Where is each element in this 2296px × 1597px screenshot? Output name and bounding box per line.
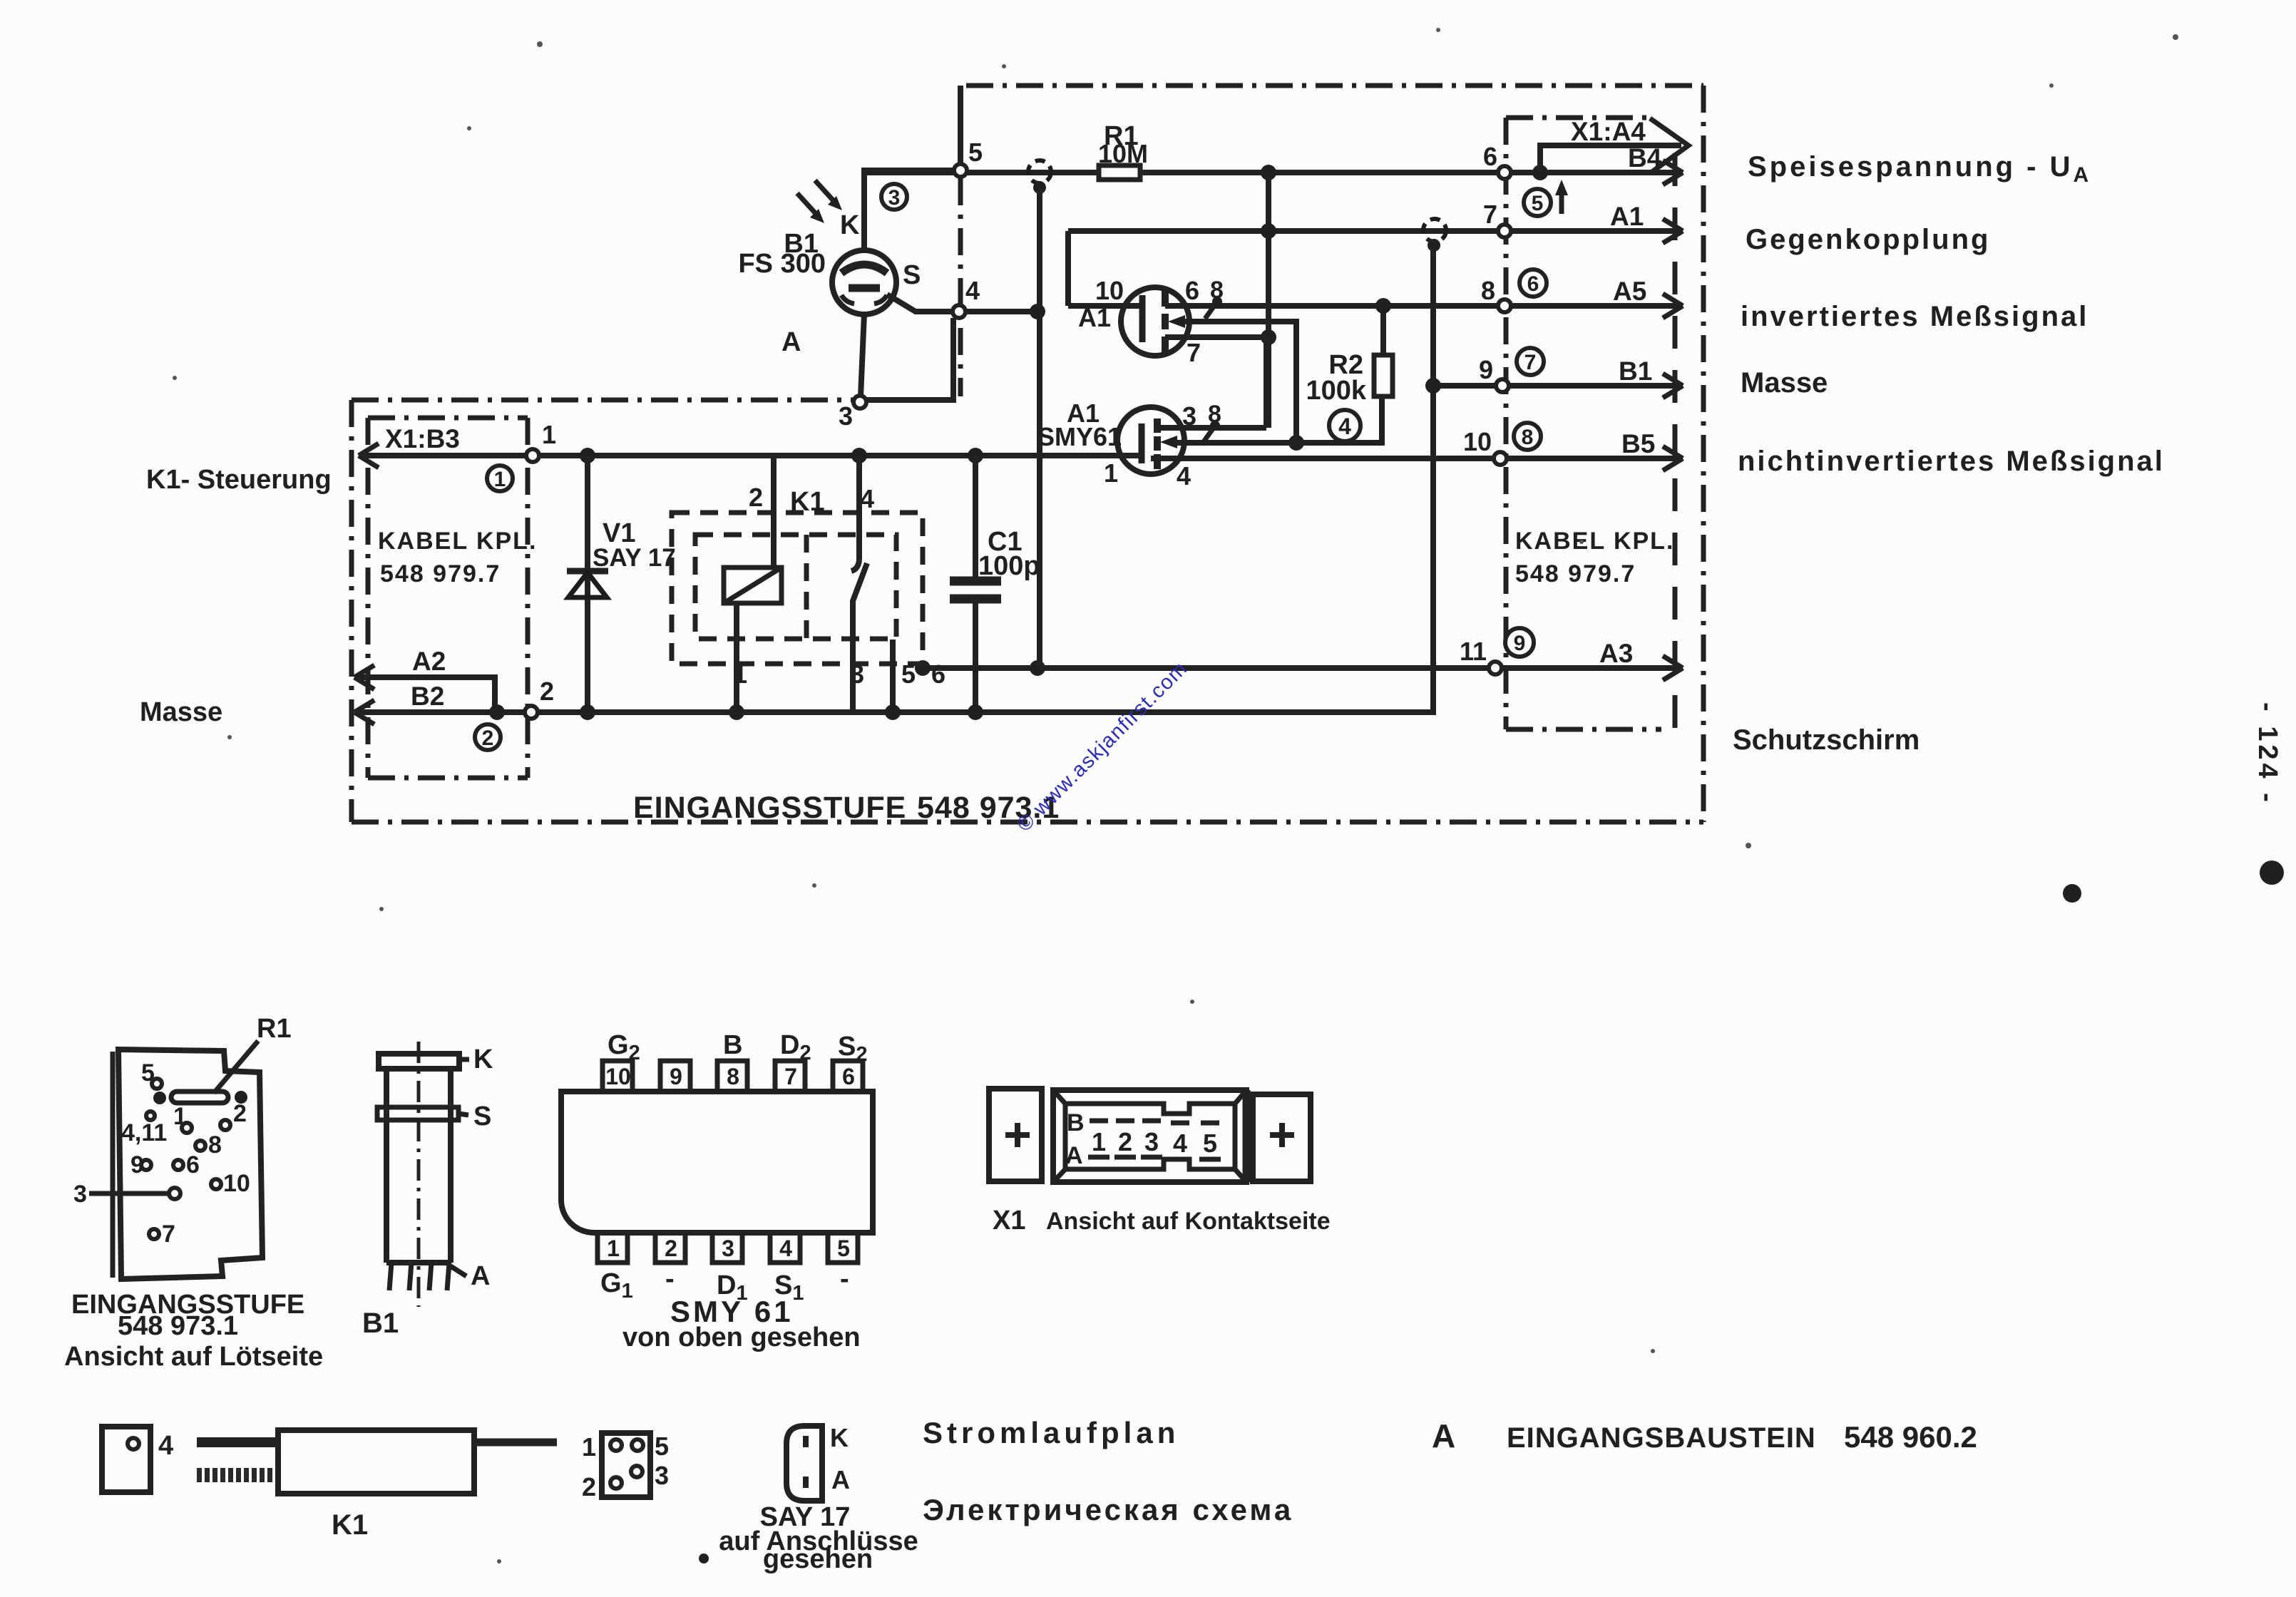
svg-text:4: 4 [1338, 414, 1351, 439]
svg-text:Masse: Masse [1741, 367, 1828, 399]
svg-text:10: 10 [605, 1064, 631, 1089]
svg-text:nichtinvertiertes Meßsignal: nichtinvertiertes Meßsignal [1738, 446, 2165, 477]
svg-text:3: 3 [655, 1461, 669, 1490]
svg-text:Masse: Masse [140, 697, 222, 727]
svg-text:548 973.1: 548 973.1 [118, 1311, 238, 1341]
svg-text:X1:B3: X1:B3 [385, 424, 460, 453]
svg-text:K1: K1 [332, 1509, 368, 1541]
svg-text:6: 6 [1185, 276, 1199, 305]
svg-text:A2: A2 [412, 647, 446, 676]
svg-text:7: 7 [784, 1064, 797, 1089]
svg-text:von oben gesehen: von oben gesehen [622, 1323, 861, 1352]
svg-text:B: B [723, 1030, 742, 1060]
svg-text:gesehen: gesehen [763, 1544, 873, 1574]
svg-text:1: 1 [542, 420, 556, 449]
svg-text:10: 10 [1463, 427, 1492, 456]
svg-text:100p: 100p [978, 551, 1040, 581]
svg-text:Speisespannung - UA: Speisespannung - UA [1748, 151, 2091, 187]
svg-text:3: 3 [722, 1236, 734, 1261]
svg-text:5: 5 [1532, 192, 1544, 215]
svg-text:B1: B1 [1619, 356, 1652, 386]
svg-text:1: 1 [733, 659, 747, 689]
svg-text:K1- Steuerung: K1- Steuerung [146, 465, 332, 495]
svg-text:K: K [473, 1044, 493, 1074]
svg-text:R1: R1 [257, 1014, 292, 1044]
svg-text:7: 7 [1187, 338, 1201, 367]
svg-text:2: 2 [749, 483, 763, 512]
svg-text:EINGANGSBAUSTEIN: EINGANGSBAUSTEIN [1507, 1422, 1816, 1454]
svg-text:FS 300: FS 300 [738, 249, 826, 279]
svg-text:Электрическая схема: Электрическая схема [923, 1493, 1293, 1526]
svg-text:548 960.2: 548 960.2 [1844, 1420, 1977, 1454]
svg-text:548 979.7: 548 979.7 [1515, 560, 1636, 587]
svg-text:Ansicht auf Lötseite: Ansicht auf Lötseite [64, 1342, 323, 1372]
svg-text:5: 5 [837, 1236, 850, 1261]
svg-text:9: 9 [670, 1064, 682, 1089]
svg-text:B: B [1067, 1109, 1085, 1136]
svg-text:7: 7 [1483, 200, 1497, 229]
svg-text:548 979.7: 548 979.7 [380, 560, 501, 587]
svg-text:A: A [1432, 1417, 1455, 1454]
svg-text:6: 6 [1483, 142, 1497, 171]
svg-text:9: 9 [1479, 355, 1493, 384]
svg-text:1: 1 [607, 1236, 620, 1261]
svg-text:6: 6 [842, 1064, 855, 1089]
svg-text:2: 2 [1118, 1127, 1132, 1156]
svg-text:A: A [781, 327, 801, 357]
svg-text:-: - [840, 1264, 849, 1294]
svg-text:2: 2 [582, 1472, 596, 1501]
svg-text:1: 1 [582, 1432, 596, 1462]
svg-text:4: 4 [158, 1431, 173, 1461]
svg-text:5: 5 [141, 1059, 155, 1087]
svg-text:6: 6 [186, 1151, 200, 1179]
svg-text:5: 5 [655, 1432, 669, 1461]
svg-text:8: 8 [1522, 426, 1534, 449]
svg-text:8: 8 [208, 1131, 222, 1159]
svg-text:A: A [471, 1261, 490, 1291]
svg-text:5: 5 [968, 138, 983, 167]
svg-text:8: 8 [1481, 276, 1495, 305]
svg-text:K: K [830, 1423, 849, 1452]
svg-text:3: 3 [73, 1181, 87, 1208]
svg-text:1: 1 [1092, 1127, 1106, 1156]
svg-text:100k: 100k [1306, 376, 1366, 406]
svg-text:6: 6 [931, 659, 945, 689]
svg-text:EINGANGSSTUFE: EINGANGSSTUFE [633, 791, 906, 825]
svg-text:S: S [903, 260, 921, 290]
svg-text:10M: 10M [1098, 139, 1148, 168]
svg-text:B2: B2 [411, 682, 444, 711]
svg-text:9: 9 [130, 1151, 144, 1179]
svg-text:3: 3 [1182, 401, 1196, 431]
svg-text:4: 4 [1177, 461, 1191, 491]
svg-text:4: 4 [965, 276, 980, 305]
svg-text:B4: B4 [1628, 143, 1662, 173]
svg-text:S: S [473, 1102, 491, 1131]
svg-text:KABEL KPL.: KABEL KPL. [378, 528, 537, 555]
svg-text:B5: B5 [1621, 429, 1655, 458]
svg-text:4: 4 [779, 1236, 792, 1261]
svg-text:Schutzschirm: Schutzschirm [1733, 724, 1920, 756]
svg-text:6: 6 [1527, 272, 1539, 296]
svg-text:Ansicht auf Kontaktseite: Ansicht auf Kontaktseite [1046, 1208, 1331, 1235]
svg-text:8: 8 [727, 1064, 739, 1089]
svg-text:9: 9 [1514, 632, 1526, 655]
svg-text:2: 2 [540, 677, 554, 706]
svg-text:invertiertes Meßsignal: invertiertes Meßsignal [1741, 301, 2089, 332]
svg-text:A: A [1065, 1142, 1083, 1169]
svg-text:1: 1 [173, 1103, 187, 1130]
svg-text:1: 1 [494, 468, 506, 491]
svg-text:7: 7 [162, 1221, 175, 1248]
svg-text:2: 2 [665, 1236, 677, 1261]
svg-text:A5: A5 [1613, 277, 1646, 306]
svg-text:A: A [831, 1465, 850, 1494]
svg-text:10: 10 [223, 1170, 250, 1197]
svg-text:X1: X1 [993, 1206, 1025, 1236]
svg-text:SAY 17: SAY 17 [593, 544, 676, 572]
svg-text:-: - [665, 1264, 675, 1294]
svg-text:3: 3 [1144, 1127, 1159, 1156]
svg-text:X1:A4: X1:A4 [1571, 117, 1646, 146]
svg-text:B1: B1 [362, 1308, 399, 1339]
svg-text:11: 11 [1460, 637, 1487, 666]
svg-text:7: 7 [1524, 351, 1537, 374]
svg-text:K: K [840, 210, 860, 240]
svg-text:3: 3 [839, 401, 853, 431]
svg-text:4: 4 [1173, 1129, 1187, 1158]
svg-text:3: 3 [850, 659, 864, 689]
svg-text:2: 2 [233, 1100, 247, 1127]
svg-text:A1: A1 [1078, 303, 1111, 332]
svg-text:Stromlaufplan: Stromlaufplan [923, 1416, 1179, 1449]
svg-text:3: 3 [888, 186, 901, 210]
svg-text:Gegenkopplung: Gegenkopplung [1746, 224, 1990, 255]
svg-text:SMY61: SMY61 [1037, 422, 1122, 451]
svg-text:A1: A1 [1610, 202, 1644, 231]
svg-text:2: 2 [482, 726, 494, 750]
svg-text:5: 5 [901, 659, 916, 689]
svg-text:K1: K1 [790, 487, 825, 517]
svg-text:4: 4 [860, 484, 874, 513]
svg-text:KABEL KPL.: KABEL KPL. [1515, 528, 1674, 555]
svg-text:- 124 -: - 124 - [2253, 702, 2282, 806]
svg-text:1: 1 [1104, 458, 1118, 488]
svg-text:10: 10 [1095, 276, 1124, 305]
svg-text:5: 5 [1203, 1129, 1217, 1158]
svg-text:4,11: 4,11 [121, 1119, 167, 1146]
svg-text:A3: A3 [1599, 639, 1633, 668]
